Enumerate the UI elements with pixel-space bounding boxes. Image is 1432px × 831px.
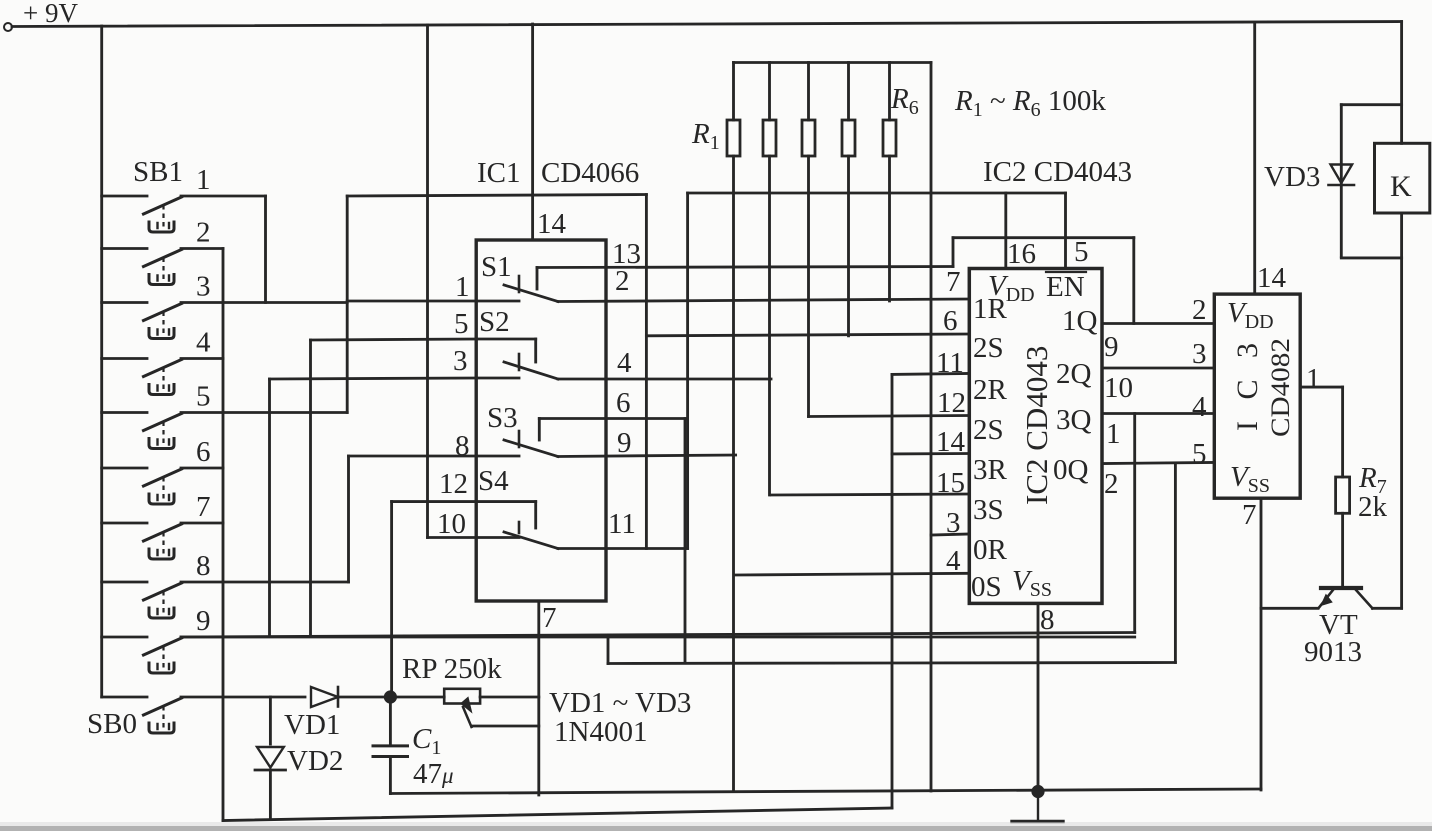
svg-text:0Q: 0Q: [1053, 454, 1089, 486]
svg-text:6: 6: [616, 387, 631, 419]
svg-text:1: 1: [196, 164, 211, 196]
wire +9V drop to IC3 pin 14: [1253, 23, 1256, 294]
pushbutton switch SB1 section 4: [102, 357, 147, 360]
wire S1 output pin2 to IC2 pin7: [558, 299, 969, 302]
wire +9V drop to IC1 pin10 row: [426, 25, 429, 538]
wire IC3 pin1 stub: [1300, 386, 1342, 389]
svg-text:7: 7: [1242, 499, 1257, 531]
svg-text:S3: S3: [487, 402, 518, 434]
svg-text:9: 9: [196, 605, 211, 637]
svg-text:5: 5: [196, 381, 211, 413]
pushbutton switch SB1 section 1: [102, 195, 147, 198]
wire 1Q riser: [1132, 238, 1135, 324]
op-amp U2 IC2 CD4043 box: [969, 269, 1102, 604]
svg-text:IC2 CD4043: IC2 CD4043: [1019, 346, 1054, 505]
wire IC1 pin10 line: [428, 536, 477, 539]
pushbutton switch SB1 section 6: [102, 467, 147, 470]
svg-text:1N4001: 1N4001: [554, 716, 647, 748]
svg-text:2: 2: [1192, 294, 1207, 326]
svg-text:SB1: SB1: [133, 156, 183, 188]
wire even-rows bus down to bottom rail: [222, 249, 225, 821]
svg-text:VD2: VD2: [287, 745, 343, 777]
wire IC1 pin5 riser down to row9 line: [309, 340, 312, 636]
svg-text:VD1 ~ VD3: VD1 ~ VD3: [549, 687, 691, 719]
svg-text:3: 3: [946, 507, 961, 539]
svg-text:14: 14: [537, 208, 567, 240]
svg-text:12: 12: [937, 387, 966, 419]
svg-text:3: 3: [1192, 338, 1207, 370]
wire IC1 pin7 down: [537, 601, 540, 795]
wire K bottom to branch: [1400, 213, 1403, 258]
capacitor C1 47u: [389, 697, 392, 745]
svg-text:S1: S1: [481, 251, 512, 283]
pushbutton switch SB1 section 3: [102, 301, 147, 304]
pushbutton switch SB1 section 8: [102, 581, 147, 584]
wire S3 output pin9 line: [558, 455, 736, 457]
svg-text:3: 3: [196, 271, 211, 303]
svg-text:S4: S4: [478, 465, 509, 497]
svg-text:6: 6: [943, 305, 958, 337]
svg-text:VD3: VD3: [1264, 161, 1320, 193]
wire bottom rail: [223, 808, 892, 821]
svg-text:4: 4: [617, 347, 632, 379]
svg-text:10: 10: [1104, 372, 1133, 404]
wire S4 output pin11 line: [558, 547, 688, 550]
resistor R5/R6 100k: [888, 63, 891, 121]
svg-text:9: 9: [617, 427, 632, 459]
wire rows1/3/5 riser: [346, 196, 349, 413]
diode VD2: [269, 697, 272, 744]
wire top +9V rail: [12, 22, 1402, 27]
svg-text:9: 9: [1104, 331, 1119, 363]
svg-text:2: 2: [1104, 468, 1119, 500]
wire row8 riser to IC1 pin8: [347, 456, 350, 582]
wire 0Q return line: [608, 663, 1175, 664]
switch S4 of IC1: [476, 500, 536, 503]
svg-text:RP 250k: RP 250k: [402, 653, 502, 685]
wire 2R line to IC2 pin11: [892, 372, 969, 376]
svg-text:2Q: 2Q: [1056, 358, 1092, 390]
switch S2 of IC1: [476, 338, 536, 341]
svg-text:10: 10: [437, 508, 466, 540]
wire drop to IC2 pin6 1S: [645, 195, 648, 549]
svg-text:8: 8: [196, 550, 211, 582]
svg-text:1Q: 1Q: [1062, 305, 1098, 337]
wire 3S line R2 to IC2: [771, 494, 969, 495]
svg-text:7: 7: [946, 266, 961, 298]
wire S2 output pin4 to R2 column: [558, 378, 771, 381]
svg-text:4: 4: [946, 545, 961, 577]
diode VD3: [1340, 105, 1343, 257]
svg-text:2: 2: [196, 217, 211, 249]
wire 0R line into IC2 pin3: [931, 534, 969, 535]
wire collector rail up to relay: [1400, 258, 1403, 608]
transistor VT 9013: [1321, 586, 1361, 590]
svg-text:14: 14: [1257, 262, 1287, 294]
wire VD3 branch bottom: [1341, 256, 1401, 259]
svg-text:8: 8: [455, 430, 470, 462]
relay K coil box: [1375, 143, 1430, 213]
wire +9V drop to IC1 pin 14: [531, 24, 534, 240]
svg-text:11: 11: [936, 347, 964, 379]
wire resistor bank top bus: [734, 61, 932, 64]
svg-text:IC2 CD4043: IC2 CD4043: [983, 156, 1132, 188]
pushbutton switch SB1 section 5: [102, 411, 147, 414]
wire IC2 pin16 drop: [1004, 193, 1007, 269]
svg-text:47μ: 47μ: [413, 758, 454, 790]
wire 3Q drop to row9 line: [1133, 414, 1136, 633]
svg-text:3R: 3R: [973, 454, 1008, 486]
op-amp U1 IC1 CD4066 box: [476, 240, 606, 601]
pushbutton switch SB1 section 9: [102, 636, 147, 639]
svg-text:7: 7: [196, 491, 211, 523]
svg-text:11: 11: [608, 508, 636, 540]
resistor R7 2k: [1336, 477, 1350, 513]
svg-text:1: 1: [1106, 418, 1121, 450]
wire ground rail: [390, 789, 1261, 794]
svg-text:K: K: [1390, 170, 1412, 203]
svg-text:1: 1: [455, 271, 470, 303]
svg-text:CD4082: CD4082: [1266, 338, 1295, 437]
wire SB0 row to RP: [338, 696, 444, 699]
op-amp U3 IC3 CD4082 box: [1214, 294, 1300, 498]
wire EN/VDD feed line: [688, 192, 1066, 195]
svg-text:8: 8: [1040, 604, 1055, 636]
svg-text:6: 6: [196, 436, 211, 468]
wire IC1 pin12 line: [392, 500, 477, 503]
wire RP to IC1 pin7 column: [480, 696, 539, 699]
wire right bank drop to 0R: [930, 63, 933, 792]
svg-text:7: 7: [542, 602, 557, 634]
svg-text:S2: S2: [479, 306, 510, 338]
wire S3 control pin6 line: [539, 417, 685, 420]
wire 1Q to IC3 pin2: [1102, 322, 1214, 325]
svg-text:16: 16: [1007, 238, 1036, 270]
svg-text:1R: 1R: [973, 293, 1008, 325]
wire row1 drop: [264, 196, 267, 303]
svg-text:5: 5: [454, 308, 469, 340]
wire 2R drop to bottom: [891, 374, 894, 808]
svg-text:0R: 0R: [973, 534, 1008, 566]
wire IC2 pin5 drop: [1064, 193, 1067, 269]
svg-text:3Q: 3Q: [1056, 404, 1092, 436]
wire pin1 to R7: [1341, 387, 1344, 477]
svg-text:15: 15: [936, 467, 965, 499]
svg-text:4: 4: [1192, 391, 1207, 423]
wire 1S line into IC2 pin 6: [646, 334, 969, 336]
wire IC1 pin5 line: [311, 339, 477, 340]
pushbutton switch SB0: [102, 696, 147, 699]
resistor R2 100k: [768, 63, 771, 121]
wire row9 long line to 3Q riser: [181, 633, 1135, 638]
resistor R4 100k: [847, 63, 850, 121]
wire IC1 pin12 drop to RP node: [390, 502, 393, 697]
wire VD3 branch top: [1341, 103, 1401, 106]
wire 3Q to IC3 pin4: [1102, 412, 1214, 415]
node +9V supply terminal: [4, 23, 12, 31]
wire link drop to pin13 line: [952, 238, 955, 267]
wire S1 control pin13 line: [537, 267, 953, 268]
pushbutton switch SB1 section 7: [102, 522, 147, 525]
diode VD1: [311, 687, 338, 707]
svg-text:9013: 9013: [1304, 636, 1362, 668]
svg-text:1: 1: [1306, 363, 1321, 395]
svg-text:VD1: VD1: [284, 709, 340, 741]
switch S1 of IC1: [476, 300, 519, 303]
svg-text:SB0: SB0: [87, 708, 137, 740]
wire +9V drop to relay K top: [1400, 22, 1403, 144]
wire IC1 pin8 line: [349, 455, 477, 458]
wire 0Q to IC3 pin5: [1102, 463, 1214, 464]
switch S3 of IC1: [476, 455, 519, 458]
svg-text:IC1: IC1: [477, 157, 521, 189]
potentiometer RP 250k: [444, 689, 480, 704]
svg-text:12: 12: [439, 468, 468, 500]
svg-text:2S: 2S: [973, 332, 1004, 364]
wire 1Q to S1-control link: [953, 236, 1134, 239]
resistor R1 100k: [732, 63, 735, 121]
svg-text:14: 14: [936, 426, 966, 458]
wire IC1 pin1 line: [347, 300, 476, 303]
svg-text:3: 3: [453, 345, 468, 377]
node RP junction dot: [384, 690, 397, 703]
wire RP wiper line: [472, 725, 539, 728]
ground symbol: [1037, 792, 1039, 822]
resistor R3 100k: [807, 63, 810, 121]
svg-text:+ 9V: + 9V: [23, 0, 78, 28]
svg-text:CD4066: CD4066: [541, 157, 639, 189]
node ground junction dot: [1031, 785, 1044, 798]
wire IC3 pin7 down to ground rail: [1260, 498, 1263, 790]
svg-text:5: 5: [1192, 438, 1207, 470]
wire hook row9 line to 0Q line: [607, 639, 610, 664]
wire IC2 pin8 ground drop: [1037, 603, 1040, 791]
wire 0Q drop to return line: [1174, 464, 1177, 663]
wire 3R line to IC2 pin14: [892, 452, 969, 455]
svg-text:5: 5: [1074, 236, 1089, 268]
pushbutton switch SB1 section 2: [102, 247, 147, 250]
wire rows-odd bus to IC1 area: [347, 195, 646, 197]
wire S4 output riser to EN line: [686, 193, 689, 549]
wire S3 control riser to 0Q line: [684, 419, 687, 664]
wire IC1 pin3 riser down to row9 line: [268, 379, 271, 636]
wire IC1 pin3 line: [270, 378, 477, 379]
scan edge band bottom: [0, 826, 1432, 831]
svg-text:2k: 2k: [1358, 491, 1388, 523]
wire 0S line into IC2 pin4: [736, 573, 970, 575]
wire left rail from +9V down to SB0 row: [100, 26, 103, 697]
svg-text:4: 4: [196, 327, 211, 359]
svg-text:2S: 2S: [973, 414, 1004, 446]
svg-text:EN: EN: [1046, 271, 1085, 303]
svg-text:2R: 2R: [973, 374, 1008, 406]
svg-text:3S: 3S: [973, 494, 1004, 526]
wire 2Q to IC3 pin3: [1102, 367, 1214, 370]
wire 2S line R3 to IC2: [809, 416, 970, 417]
svg-text:0S: 0S: [971, 571, 1002, 603]
svg-text:2: 2: [615, 265, 630, 297]
